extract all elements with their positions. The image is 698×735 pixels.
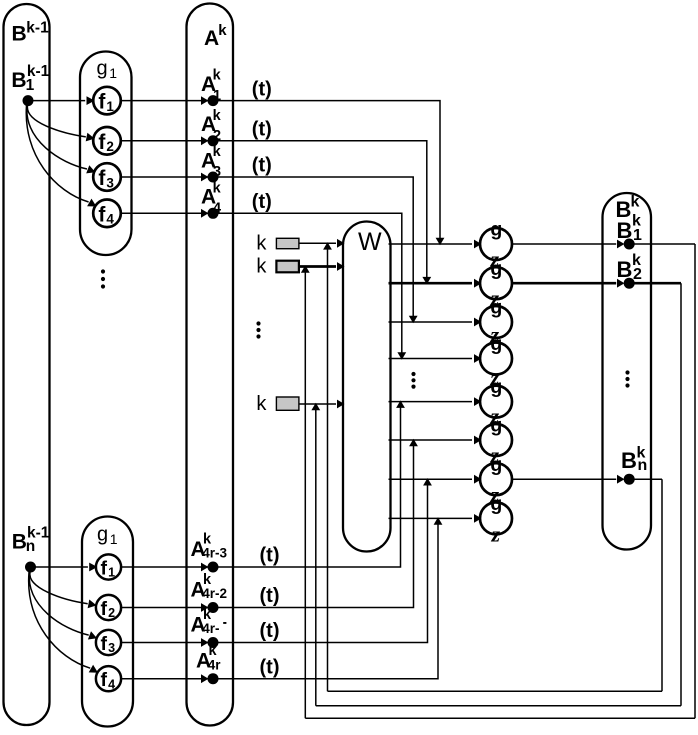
arrowhead feedback 2 up onto k-line 3 [311, 403, 320, 411]
label A 4r^k [196, 643, 221, 673]
label A4^k [201, 180, 222, 216]
wire row A4: f4 to corner then down to g-line 4 [121, 213, 402, 357]
node A4^k dot [208, 208, 219, 219]
svg-text:2: 2 [213, 128, 221, 144]
svg-text:2: 2 [106, 139, 114, 154]
label (t) row A3 [252, 155, 272, 177]
arrowhead up onto g-line 6 [409, 439, 418, 447]
svg-text:1: 1 [109, 65, 117, 81]
svg-text:2: 2 [633, 266, 642, 283]
block k delay register 1 [276, 238, 299, 248]
svg-text:4: 4 [213, 201, 221, 217]
wire W to g-unit 5 [389, 397, 482, 406]
svg-text:k: k [631, 193, 640, 210]
label (t) bottom row 4 [260, 656, 280, 678]
unit g 8 circle [480, 493, 512, 534]
svg-text:f: f [101, 633, 108, 655]
wire row A3: f3 to corner then down to g-line 3 [121, 177, 413, 321]
delay z mark 2 with arrowhead into unit g 3 [489, 286, 501, 311]
svg-text:k: k [256, 393, 267, 415]
svg-text:3: 3 [106, 175, 114, 190]
ellipsis k column [256, 321, 260, 338]
wire W to g-unit 4 [389, 354, 482, 363]
label B^k [616, 193, 640, 222]
node B1^(k-1) dot [23, 95, 34, 106]
svg-text:(t): (t) [252, 119, 272, 141]
arrowhead down onto g-line 4 [397, 352, 406, 360]
wire B2^k to right corner down [629, 283, 681, 706]
wire k2 to W [299, 262, 345, 271]
wire row A4r-0: f4 to corner then up to g-line 8 [121, 519, 438, 678]
block k delay register 3 [276, 397, 299, 410]
delay z mark 4 with arrowhead into unit g 5 [489, 365, 501, 390]
unit f4 bottom [96, 666, 121, 691]
node A 4r-row3 dot [208, 637, 219, 648]
label (t) row A1 [252, 78, 272, 100]
unit f4 top [93, 200, 121, 228]
label B^(k-1) [12, 20, 50, 46]
svg-text:k: k [218, 22, 227, 39]
label (t) bottom row 2 [260, 585, 280, 607]
svg-text:f: f [98, 131, 106, 154]
node A 4r-row1 dot [208, 562, 219, 573]
svg-text:(t): (t) [252, 191, 272, 213]
unit f1 bottom [96, 554, 121, 579]
delay z mark 7 with arrowhead into unit g 8 [489, 482, 501, 507]
svg-text:(t): (t) [252, 155, 272, 177]
label B1^(k-1) [11, 63, 49, 94]
wire feedback 2 bottom run [316, 705, 681, 707]
unit g 1 circle [480, 219, 512, 260]
unit g 5 circle [480, 376, 512, 417]
unit g 2 circle [480, 258, 512, 299]
svg-text:n: n [26, 538, 35, 555]
svg-text:W: W [358, 228, 382, 256]
wire Bn^k to right corner down [629, 479, 662, 691]
svg-text:f: f [98, 203, 106, 226]
label k input 2 [256, 255, 267, 277]
label Bn^(k-1) [12, 524, 50, 555]
node A2^k dot [208, 135, 219, 146]
svg-text:4r-3: 4r-3 [202, 546, 227, 561]
container stadium g1 wavelet group top [80, 52, 132, 256]
arrowhead feedback 1 up onto k-line 2 [301, 265, 310, 273]
ellipsis left column [101, 269, 105, 288]
label (t) bottom row 3 [260, 620, 280, 642]
label A 4r-^k [191, 607, 227, 637]
svg-text:k: k [213, 144, 222, 160]
delay z mark 6 with arrowhead into unit g 7 [489, 443, 501, 468]
label Bn^k [621, 445, 647, 475]
svg-text:f: f [98, 167, 106, 190]
arrowhead into A2 bottom node [201, 603, 209, 612]
svg-text:1: 1 [633, 227, 642, 244]
wire feedback 1 bottom run [305, 717, 695, 719]
svg-text:4r-2: 4r-2 [202, 586, 227, 601]
svg-text:1: 1 [110, 531, 118, 547]
svg-text:2: 2 [108, 606, 115, 620]
arrowhead into A1 bottom node [201, 563, 209, 572]
svg-text:4r-: 4r- [202, 621, 219, 636]
svg-text:n: n [638, 457, 648, 474]
container stadium B^(k-1) input layer [4, 4, 50, 725]
svg-text:4: 4 [108, 677, 115, 691]
wire W to g-unit 7 [389, 475, 482, 484]
svg-text:B: B [617, 218, 633, 243]
wire g-unit 2 to B2^k node [512, 279, 625, 288]
svg-text:f: f [101, 598, 108, 620]
svg-text:1: 1 [106, 99, 114, 114]
svg-text:k: k [213, 108, 222, 124]
block k delay register 2 [276, 261, 299, 273]
svg-text:f: f [98, 91, 106, 114]
svg-text:g: g [97, 58, 108, 80]
svg-text:(t): (t) [260, 620, 280, 642]
wire Bn to f1 bottom [36, 563, 98, 572]
unit g 3 circle [480, 297, 512, 338]
label k input 3 [256, 393, 267, 415]
svg-text:3: 3 [213, 164, 221, 180]
label g1 top [97, 58, 118, 81]
arc B1 to f4 [26, 106, 96, 207]
delay z mark 5 with arrowhead into unit g 6 [489, 404, 501, 429]
svg-text:B: B [621, 448, 637, 473]
arc Bn to f4 bottom [29, 572, 98, 673]
arrowhead up onto g-line 7 [423, 478, 432, 486]
wire feedback 3 bottom run [328, 690, 663, 692]
unit f3 bottom [96, 630, 121, 655]
label g1 bottom [97, 524, 118, 547]
container stadium B^k output layer [603, 193, 652, 550]
arrowhead up onto g-line 5 [396, 400, 405, 408]
wire row A4r-2: f2 to corner then up to g-line 6 [121, 441, 413, 608]
node B1^k dot [624, 239, 635, 250]
wire W to g-unit 8 [389, 514, 482, 523]
svg-text:B: B [12, 23, 27, 46]
arrowhead feedback 3 up onto k-line 1 [323, 242, 332, 250]
svg-text:k: k [256, 255, 267, 277]
svg-text:1: 1 [213, 88, 221, 104]
node A3^k dot [208, 172, 219, 183]
label (t) row A4 [252, 191, 272, 213]
svg-text:k: k [213, 180, 222, 196]
ellipsis between W and g units [411, 372, 415, 389]
label (t) row A2 [252, 119, 272, 141]
wire k1 to W [299, 239, 345, 248]
wire row A4r-3: f1 to corner then up to g-line 5 [121, 403, 400, 567]
arrowhead into A4 node [201, 209, 209, 218]
container stadium g1 wavelet group bottom [82, 517, 133, 727]
label A2^k [201, 108, 222, 144]
wire B1^k to right corner down [629, 244, 695, 718]
wire g-unit 7 to Bn^k node [512, 475, 625, 484]
node A 4r-row2 dot [208, 602, 219, 613]
delay z mark 8 [491, 521, 501, 546]
arc B1 to f2 [27, 106, 94, 142]
delay z mark 1 with arrowhead into unit g 2 [489, 247, 501, 272]
svg-text:f: f [101, 557, 108, 579]
svg-text:(t): (t) [260, 545, 280, 567]
svg-text:B: B [12, 531, 27, 554]
node A 4r-row4 dot [208, 673, 219, 684]
delay z mark 3 with arrowhead into unit g 4 [489, 322, 501, 347]
svg-text:k: k [213, 68, 222, 84]
node B2^k dot [624, 278, 635, 289]
wire W to g-unit 3 [389, 318, 482, 327]
svg-text:A: A [204, 27, 219, 50]
label (t) bottom row 1 [260, 545, 280, 567]
arrowhead into A1 node [201, 96, 209, 105]
wire feedback 1 left vertical up to k-line 2 [304, 268, 306, 719]
wire W to g-unit 6 [389, 436, 482, 445]
arrowhead into A2 node [201, 136, 209, 145]
unit f1 top [93, 87, 121, 115]
label B2^k [617, 252, 643, 283]
arrowhead down onto g-line 1 [436, 238, 445, 246]
label A1^k [201, 68, 222, 104]
label B1^k [617, 213, 643, 244]
arrowhead down onto g-line 3 [409, 316, 418, 324]
svg-text:g: g [97, 524, 108, 546]
svg-text:B: B [617, 257, 633, 282]
wire row A4r-1: f3 to corner then up to g-line 7 [121, 480, 427, 642]
svg-text:f: f [101, 669, 108, 691]
unit f3 top [93, 163, 121, 191]
svg-text:1: 1 [108, 566, 115, 580]
arc Bn to f3 bottom [29, 572, 97, 640]
wire feedback 3 left vertical up to k-line 1 [327, 244, 329, 691]
svg-text:1: 1 [26, 77, 35, 94]
label A 4r-2^k [191, 572, 228, 602]
svg-text:4r: 4r [208, 657, 222, 672]
wire k3 to W [299, 400, 345, 409]
arrowhead down onto g-line 2 [422, 277, 431, 285]
arrowhead up onto g-line 8 [434, 517, 443, 525]
svg-text:k: k [256, 232, 267, 254]
label W [358, 228, 382, 256]
svg-text:B: B [11, 69, 26, 92]
unit g 6 circle [480, 415, 512, 456]
svg-text:k‑1: k‑1 [26, 20, 49, 37]
label A^k [204, 22, 227, 50]
wire W to g-unit 1 [389, 240, 482, 249]
wire feedback 2 left vertical up to k-line 3 [315, 405, 317, 706]
label A 4r-3^k [191, 532, 228, 562]
arrowhead into A4 bottom node [201, 674, 209, 683]
svg-text:g: g [490, 219, 502, 241]
svg-text:(t): (t) [252, 78, 272, 100]
container stadium W weight matrix [343, 222, 391, 552]
wire W to g-unit 2 [389, 279, 482, 288]
ellipsis B^k column [625, 370, 629, 387]
svg-text:(t): (t) [260, 656, 280, 678]
arc B1 to f3 [27, 106, 96, 174]
node Bn^(k-1) dot [25, 562, 36, 573]
wire B1 to f1 [33, 96, 95, 105]
unit g 7 circle [480, 454, 512, 495]
node Bn^k dot [624, 474, 635, 485]
unit f2 bottom [96, 595, 121, 620]
arrowhead into A3 bottom node [201, 638, 209, 647]
wire g-unit 1 to B1^k node [512, 240, 625, 249]
svg-text:z: z [491, 521, 501, 546]
svg-text:3: 3 [108, 641, 115, 655]
arc Bn to f2 bottom [30, 572, 97, 608]
svg-text:(t): (t) [260, 585, 280, 607]
container stadium A^k layer [187, 4, 234, 726]
unit g 4 circle [480, 333, 512, 374]
node A1^k dot [208, 95, 219, 106]
unit f2 top [93, 127, 121, 155]
label k input 1 [256, 232, 267, 254]
svg-text:4: 4 [106, 212, 114, 227]
label A3^k [201, 144, 222, 180]
wire row A2: f2 to corner then down to g-line 2 [121, 141, 427, 282]
wire row A1: f1 to corner then down to g-line 1 [121, 101, 440, 243]
arrowhead into A3 node [201, 173, 209, 182]
